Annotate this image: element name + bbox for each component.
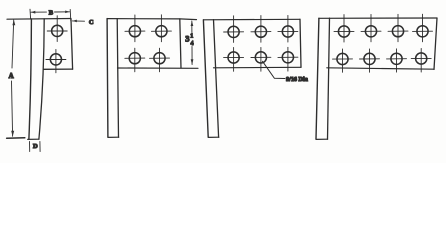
hole H2 lug1 bottom <box>50 54 61 65</box>
lug 2 leg bottom edge <box>108 136 119 138</box>
lug 2 top edge with extension <box>108 19 197 20</box>
centerlines lug2 r2c2 <box>150 48 170 72</box>
centerlines lug4 r2c3 <box>387 49 407 72</box>
centerline H1 vertical <box>56 16 58 42</box>
hole lug4 r1c2 <box>365 26 376 37</box>
centerline H2 horizontal <box>46 59 66 61</box>
lug 2 plate bottom edge with extension <box>118 67 199 69</box>
lug 2 leg left edge <box>106 19 109 137</box>
centerlines lug4 r2c1 <box>333 49 353 72</box>
dimension A line upper segment with up arrow <box>12 20 15 68</box>
hole lug4 r1c4 <box>417 26 428 37</box>
centerline H1 horizontal <box>47 30 67 32</box>
centerlines lug4 r1c1 <box>334 15 354 42</box>
dimension D tick right <box>39 142 41 152</box>
lug 1 plate bottom edge <box>44 68 73 70</box>
hole lug2 r2c1 <box>129 53 140 64</box>
svg-text:3: 3 <box>185 33 189 43</box>
hole lug4 r2c1 <box>337 53 348 64</box>
centerlines lug2 r1c2 <box>151 15 171 42</box>
lug 1 leg right edge <box>39 19 44 139</box>
hole lug2 r1c1 <box>129 26 140 37</box>
lug 3 plate bottom edge <box>214 66 302 69</box>
hole lug3 r1c1 <box>228 26 239 37</box>
svg-text:1: 1 <box>190 34 193 40</box>
centerline H2 vertical <box>55 49 57 72</box>
lug 4 leg right edge <box>328 18 330 139</box>
dimension 3 1/4 line lower with down arrow <box>191 47 194 65</box>
hole lug3 r2c2 <box>255 52 266 63</box>
dimension B line right segment with arrow <box>55 11 70 14</box>
lug 1 plate right edge <box>71 19 73 69</box>
centerlines lug3 r1c2 <box>251 16 271 43</box>
dimension 3 1/4 line upper with up arrow <box>191 21 194 33</box>
lug 4 top edge <box>319 17 437 19</box>
lug 1 leg bottom edge <box>28 138 39 140</box>
centerlines lug4 r2c2 <box>360 49 380 72</box>
dimension B extension tick left <box>29 9 32 19</box>
lug 3 leg right edge <box>214 20 219 138</box>
dimension B line left segment with arrow <box>31 11 47 14</box>
centerlines lug3 r1c1 <box>224 16 244 43</box>
lug 4 plate right edge <box>434 18 437 69</box>
leader line for 9/16 Dia <box>263 61 285 78</box>
hole lug2 r1c2 <box>156 26 167 37</box>
svg-text:A: A <box>9 72 14 80</box>
hole lug3 r1c2 <box>255 26 266 37</box>
centerlines lug3 r2c3 <box>278 47 298 71</box>
svg-text:B: B <box>49 9 54 16</box>
hole lug4 r1c3 <box>392 26 403 37</box>
centerlines lug4 r1c3 <box>388 14 408 41</box>
lug 3 leg bottom edge <box>208 136 219 138</box>
dimension B extension tick right <box>69 10 72 22</box>
centerlines lug2 r1c1 <box>125 15 145 42</box>
dimension A line lower segment with down arrow <box>11 81 14 137</box>
hole lug4 r2c4 <box>416 53 427 64</box>
lug 4 plate bottom edge <box>327 68 434 69</box>
dimension D tick left <box>29 142 31 152</box>
hole lug4 r2c2 <box>364 53 375 64</box>
svg-text:4: 4 <box>191 41 194 47</box>
lug 2 plate right edge <box>180 19 181 68</box>
svg-text:C: C <box>89 19 94 26</box>
hole lug3 r1c3 <box>282 26 293 37</box>
centerlines lug3 r1c3 <box>278 15 298 42</box>
lug 1 outline: top edge with extension line <box>7 18 71 21</box>
svg-text:9/16 Dia: 9/16 Dia <box>286 76 308 83</box>
centerlines lug3 r2c1 <box>224 48 244 72</box>
dimension A bottom crossbar <box>7 137 25 139</box>
lug 4 leg bottom edge <box>316 138 328 140</box>
lug 3 leg left edge <box>203 20 208 137</box>
centerlines lug4 r1c4 <box>413 14 433 42</box>
centerlines lug2 r2c1 <box>125 48 145 72</box>
hole lug4 r1c1 <box>338 26 349 37</box>
hole lug4 r2c3 <box>391 53 402 64</box>
lug 3 plate right edge <box>300 19 301 67</box>
lug 4 leg left edge <box>316 18 319 139</box>
svg-text:D: D <box>33 143 38 150</box>
centerlines lug3 r2c2 <box>251 47 271 71</box>
hole lug3 r2c3 <box>282 52 293 63</box>
centerlines lug4 r2c4 <box>411 49 431 73</box>
lug 1 leg left edge <box>29 19 32 139</box>
hole H1 lug1 top <box>52 25 63 36</box>
lug 2 leg right edge <box>117 19 118 138</box>
dimension C leader arrow <box>72 20 84 23</box>
centerlines lug4 r1c2 <box>361 14 381 41</box>
lug 3 top edge <box>204 18 300 21</box>
hole lug3 r2c1 <box>228 52 239 63</box>
hole lug2 r2c2 <box>154 53 165 64</box>
